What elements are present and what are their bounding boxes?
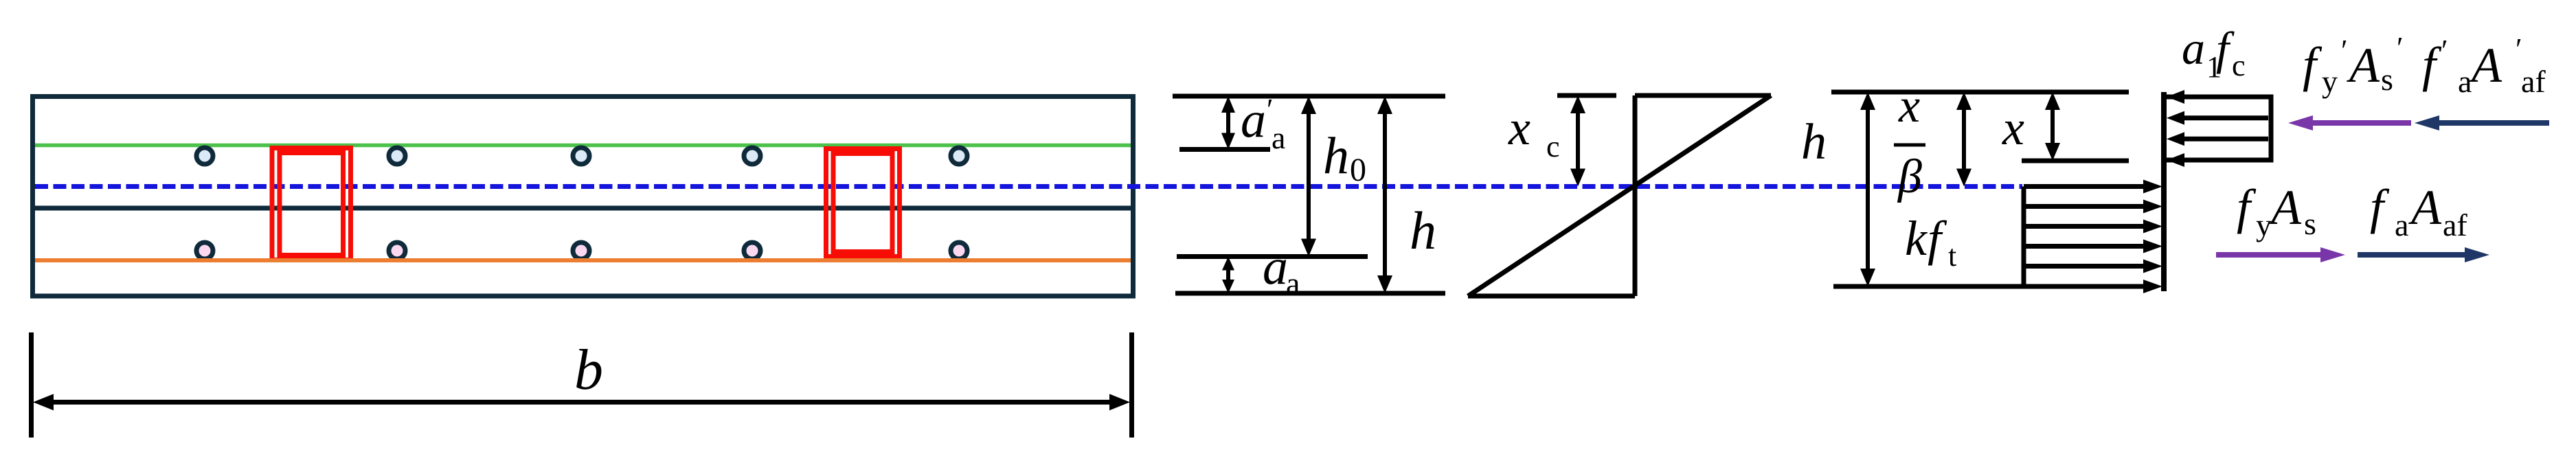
x/beta dimension arrow: [1956, 92, 1971, 187]
force arrow f'aA'af (dark navy): [2415, 115, 2549, 131]
embedded steel box section 1 (red): [272, 148, 351, 260]
b dimension double arrow: [33, 394, 1130, 411]
svg-text:fy′As′: fy′As′: [2303, 31, 2404, 99]
strain diagram top edge: [1635, 93, 1771, 98]
tension rebar level line (orange): [35, 258, 1131, 262]
top rebar circle 5: [951, 148, 967, 164]
section top reference line: [1173, 94, 1445, 99]
svg-text:b: b: [574, 338, 603, 402]
svg-text:f′aA′af: f′aA′af: [2422, 32, 2546, 99]
svg-text:x: x: [2002, 100, 2024, 155]
b dimension right extension tick: [1129, 332, 1134, 438]
svg-text:xc: xc: [1508, 100, 1560, 163]
strain diagram vertical axis: [1633, 95, 1638, 296]
x dimension lower line: [2022, 159, 2129, 163]
neutral axis (blue dashed): [35, 184, 2022, 189]
force arrow f'yA's (purple): [2288, 115, 2411, 131]
svg-text:h: h: [1801, 114, 1827, 170]
aa dimension arrow: [1222, 257, 1234, 294]
bottom rebar circle 3: [573, 242, 589, 259]
force arrow fyAs (purple): [2216, 247, 2345, 262]
stress block bottom edge arrow: [1833, 280, 2162, 293]
bottom rebar circle 4: [744, 242, 760, 259]
h dimension arrow (stress block): [1860, 92, 1875, 286]
compression stress arrow 1: [2167, 90, 2268, 104]
svg-text:aa: aa: [1263, 239, 1300, 301]
tension stress arrow 1: [2024, 180, 2162, 194]
compression rebar level line (green): [35, 144, 1131, 148]
a'a dimension arrow: [1221, 96, 1235, 150]
beam cross-section outline: [33, 97, 1133, 297]
top rebar circle 1: [196, 148, 213, 164]
svg-text:h: h: [1410, 201, 1436, 260]
svg-text:kft: kft: [1905, 211, 1956, 273]
top rebar circle 3: [573, 148, 589, 164]
a'a dimension lower line: [1179, 147, 1270, 152]
strain diagram diagonal: [1468, 95, 1771, 296]
top rebar circle 4: [744, 148, 760, 164]
aa dimension upper line: [1177, 254, 1368, 259]
top rebar circle 2: [389, 148, 405, 164]
svg-text:xβ: xβ: [1897, 80, 1922, 203]
svg-text:a1fc: a1fc: [2182, 22, 2246, 84]
h0 dimension arrow: [1301, 96, 1316, 257]
bottom rebar circle 1: [196, 242, 213, 259]
tension stress arrow 5: [2024, 260, 2162, 273]
stress block boundary vertical line: [2161, 92, 2167, 291]
compression stress block outline: [2164, 95, 2273, 163]
tension stress arrow 2: [2024, 200, 2162, 214]
embedded steel box section 2 (red): [826, 149, 900, 257]
compression stress arrow 4: [2167, 153, 2268, 167]
label x over beta: [1894, 80, 1925, 203]
svg-text:fyAs: fyAs: [2237, 179, 2316, 242]
force arrow faAaf (dark navy): [2358, 247, 2489, 262]
svg-text:h0: h0: [1323, 127, 1366, 188]
section bottom reference line: [1175, 291, 1445, 296]
h dimension arrow: [1377, 96, 1392, 293]
strain diagram bottom edge: [1468, 294, 1635, 299]
tension stress block left edge: [2022, 187, 2026, 287]
tension stress arrow 4: [2024, 240, 2162, 253]
bottom rebar circle 2: [389, 242, 405, 259]
compression stress arrow 2: [2167, 111, 2268, 125]
x dimension arrow: [2045, 92, 2060, 161]
stress block top edge: [1831, 90, 2129, 95]
svg-text:faAaf: faAaf: [2370, 179, 2467, 242]
beam mid-depth line: [35, 206, 1131, 211]
xc dimension arrow: [1570, 95, 1585, 187]
svg-text:a′a: a′a: [1241, 92, 1285, 155]
b dimension left extension tick: [29, 332, 34, 438]
compression stress arrow 3: [2167, 132, 2268, 146]
xc top reference line: [1557, 93, 1616, 98]
bottom rebar circle 5: [951, 242, 967, 259]
tension stress arrow 3: [2024, 220, 2162, 234]
